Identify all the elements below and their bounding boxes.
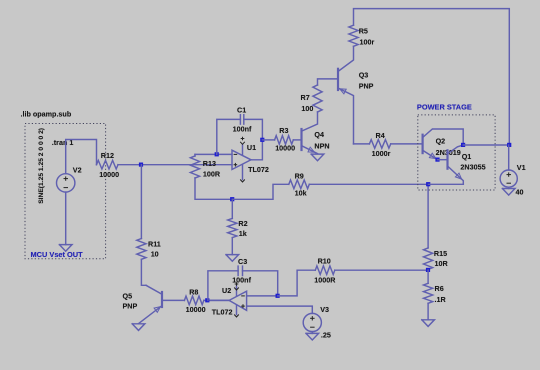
wire R13 bottom to R2 node bbox=[195, 178, 232, 199]
wire rail to V1 bbox=[508, 145, 510, 170]
resistor R5 bbox=[349, 25, 358, 46]
transistor Q2 base bar bbox=[422, 135, 424, 153]
voltage source V3 bbox=[303, 313, 321, 331]
wire R8 to U2 output bbox=[204, 299, 229, 301]
transistor Q4 emitter bbox=[302, 146, 318, 154]
svg-text:10000: 10000 bbox=[99, 170, 119, 179]
svg-text:.lib opamp.sub: .lib opamp.sub bbox=[21, 110, 72, 119]
capacitor C3 bbox=[237, 266, 239, 275]
comment box POWER STAGE bbox=[418, 115, 495, 190]
ground under V1 bbox=[502, 189, 515, 196]
svg-text:R13: R13 bbox=[203, 159, 216, 168]
wire R13 top to U1 minus input bbox=[195, 153, 232, 155]
U1 plus input mark bbox=[234, 164, 238, 166]
U2 plus input mark bbox=[241, 305, 245, 307]
transistor Q4 collector bbox=[302, 112, 318, 131]
node C3/R10/U2- junction bbox=[276, 294, 280, 298]
wire R4 to Q2 base bbox=[391, 143, 423, 145]
svg-text:100R: 100R bbox=[203, 170, 221, 179]
ground under V3 bbox=[306, 333, 319, 340]
wire C1 right to output node bbox=[244, 119, 263, 139]
svg-text:10R: 10R bbox=[435, 259, 449, 268]
U1 minus input mark bbox=[234, 153, 238, 155]
svg-text:V3: V3 bbox=[320, 305, 329, 314]
transistor Q3 collector bbox=[338, 46, 354, 71]
svg-text:V1: V1 bbox=[517, 163, 526, 172]
svg-text:MCU Vset OUT: MCU Vset OUT bbox=[31, 250, 84, 259]
wire V2 top to R12 bbox=[66, 140, 97, 174]
transistor Q4 base bar bbox=[300, 129, 302, 150]
svg-text:R2: R2 bbox=[238, 219, 247, 228]
svg-text:C3: C3 bbox=[238, 257, 247, 266]
voltage source V2 bbox=[56, 174, 74, 192]
wire R12 to node bbox=[118, 164, 141, 166]
transistor Q5 base bar bbox=[161, 292, 163, 307]
op-amp U2 triangle bbox=[229, 291, 247, 310]
wire V1 to ground bbox=[508, 187, 510, 188]
node rail / V1 junction bbox=[507, 143, 511, 147]
transistor Q5 collector bbox=[146, 285, 162, 294]
transistor Q2 collector bbox=[423, 129, 464, 145]
svg-text:1000r: 1000r bbox=[372, 149, 391, 158]
svg-text:1k: 1k bbox=[239, 229, 247, 238]
transistor Q3 base bar bbox=[337, 69, 339, 90]
svg-text:V2: V2 bbox=[73, 165, 82, 174]
svg-text:.1R: .1R bbox=[435, 295, 447, 304]
resistor R2 bbox=[231, 199, 233, 218]
svg-text:POWER STAGE: POWER STAGE bbox=[417, 103, 472, 112]
wire V3 to ground bbox=[311, 332, 313, 334]
transistor Q3 emitter bbox=[338, 88, 354, 144]
svg-text:1000R: 1000R bbox=[314, 275, 336, 284]
U2 V- power pin bbox=[236, 305, 238, 315]
arrow of Q1 emitter bbox=[455, 173, 461, 179]
wire Q5 base to R8 bbox=[162, 299, 184, 301]
svg-text:PNP: PNP bbox=[123, 302, 138, 311]
arrow of Q4 emitter bbox=[308, 147, 315, 152]
svg-text:R11: R11 bbox=[148, 239, 161, 248]
svg-text:Q5: Q5 bbox=[123, 292, 133, 301]
svg-text:Q2: Q2 bbox=[436, 137, 446, 146]
resistor R6 bbox=[427, 270, 429, 283]
resistor R7 bbox=[313, 85, 322, 112]
wire minus node to R10 bbox=[278, 270, 316, 296]
svg-text:2N3055: 2N3055 bbox=[460, 162, 485, 171]
resistor R13 bbox=[190, 156, 199, 178]
wire main net to U1 +input bbox=[141, 164, 232, 166]
svg-text:R15: R15 bbox=[434, 249, 447, 258]
svg-text:SINE(1.25 1.25 2 0 0 0 2): SINE(1.25 1.25 2 0 0 0 2) bbox=[38, 128, 45, 204]
svg-text:R4: R4 bbox=[376, 131, 385, 140]
U1 V- power pin bbox=[242, 165, 244, 180]
wire C3 right to minus node bbox=[243, 271, 278, 296]
node C1/R13/U1- junction bbox=[215, 152, 219, 156]
svg-text:Q3: Q3 bbox=[359, 71, 369, 80]
transistor Q1 emitter bbox=[448, 166, 464, 184]
svg-text:PNP: PNP bbox=[359, 81, 374, 90]
arrow of Q2 emitter bbox=[429, 153, 436, 158]
resistor R12 bbox=[97, 160, 119, 169]
ground under Q4 bbox=[311, 154, 324, 161]
wire U2 output up to C3 bbox=[208, 271, 238, 301]
wire R2 node to R9 bbox=[232, 184, 288, 199]
wire R7 top to Q3 base bbox=[318, 79, 339, 85]
wire R10 to R15/R6 node bbox=[335, 269, 428, 271]
wire node up to C1 bbox=[217, 119, 241, 154]
U1 V+ power pin bbox=[242, 145, 244, 155]
wire output node down to R15 bbox=[427, 184, 429, 248]
svg-text:R8: R8 bbox=[189, 288, 198, 297]
transistor Q5 emitter bbox=[139, 306, 163, 324]
svg-text:TL072: TL072 bbox=[248, 165, 269, 174]
svg-text:R6: R6 bbox=[435, 284, 444, 293]
transistor Q1 base bar bbox=[446, 150, 448, 168]
svg-text:100nf: 100nf bbox=[232, 275, 251, 284]
svg-text:100nf: 100nf bbox=[233, 124, 252, 133]
resistor R8 bbox=[184, 296, 203, 305]
ground under R2 bbox=[226, 255, 239, 262]
transistor Q1 collector bbox=[448, 145, 464, 154]
wire node to R3 bbox=[262, 139, 274, 141]
op-amp U1 triangle bbox=[232, 150, 251, 169]
node junction R12/R11 bbox=[139, 163, 143, 167]
resistor R10 bbox=[315, 266, 335, 275]
svg-text:R12: R12 bbox=[101, 151, 114, 160]
svg-text:Q1: Q1 bbox=[462, 152, 472, 161]
node U2 output junction bbox=[205, 298, 209, 302]
svg-text:.25: .25 bbox=[321, 331, 331, 340]
node output junction bbox=[426, 182, 430, 186]
svg-text:10: 10 bbox=[151, 250, 159, 259]
wire R3 to Q4 base bbox=[293, 139, 301, 141]
wire V2 bottom to ground bbox=[65, 192, 67, 245]
wire Q3 emitter to R4 bbox=[354, 143, 370, 145]
svg-text:10000: 10000 bbox=[275, 144, 295, 153]
svg-text:100: 100 bbox=[301, 104, 313, 113]
transistor Q2 emitter bbox=[423, 150, 438, 159]
node U1 output junction bbox=[260, 138, 264, 142]
arrow of Q5 emitter bbox=[154, 307, 160, 313]
node collectors junction bbox=[461, 143, 465, 147]
wire R9 to output node bbox=[309, 183, 428, 185]
node R2 top junction bbox=[230, 197, 234, 201]
resistor R11 bbox=[137, 239, 146, 260]
svg-text:R10: R10 bbox=[318, 257, 331, 266]
voltage source V1 bbox=[500, 170, 517, 187]
svg-text:10k: 10k bbox=[295, 189, 307, 198]
wire R11 to Q5 collector bbox=[141, 259, 146, 285]
arrow of Q3 emitter bbox=[340, 89, 347, 94]
svg-text:U2: U2 bbox=[222, 286, 231, 295]
svg-text:U1: U1 bbox=[247, 143, 256, 152]
node Q2 emitter / Q1 base junction bbox=[435, 158, 439, 162]
svg-text:10000: 10000 bbox=[186, 305, 206, 314]
capacitor C1 bbox=[239, 115, 241, 124]
svg-text:40: 40 bbox=[516, 188, 524, 197]
resistor R9 bbox=[289, 180, 310, 189]
wire collectors node to rail bbox=[463, 144, 509, 146]
U2 minus input mark bbox=[241, 295, 245, 297]
svg-text:100r: 100r bbox=[360, 38, 375, 47]
ground under V2 bbox=[59, 245, 72, 252]
wire R6 to ground bbox=[427, 303, 429, 320]
svg-text:NPN: NPN bbox=[314, 141, 329, 150]
resistor R4 bbox=[369, 140, 390, 149]
wire node down to R11 bbox=[140, 165, 142, 239]
resistor R15 bbox=[424, 248, 433, 270]
resistor R3 bbox=[275, 136, 294, 145]
comment box MCU Vset OUT bbox=[25, 124, 106, 259]
ground under R6 bbox=[422, 320, 435, 327]
svg-text:R7: R7 bbox=[301, 93, 310, 102]
svg-text:Q4: Q4 bbox=[314, 130, 324, 139]
wire Q1 emitter to output node bbox=[428, 183, 463, 185]
wire U1 output bbox=[251, 140, 262, 160]
ground under Q5 bbox=[132, 324, 145, 331]
wire U2 plus input to V3 bbox=[247, 306, 313, 313]
svg-text:R3: R3 bbox=[279, 126, 288, 135]
svg-text:R9: R9 bbox=[295, 171, 304, 180]
U2 V+ power pin bbox=[236, 286, 238, 296]
wire top rail bbox=[354, 9, 510, 145]
wire minus node to U2 minus input bbox=[247, 295, 278, 297]
wire Q2 emitter to Q1 base bbox=[438, 159, 448, 161]
svg-text:C1: C1 bbox=[237, 106, 246, 115]
svg-text:R5: R5 bbox=[359, 26, 368, 35]
svg-text:TL072: TL072 bbox=[212, 308, 233, 317]
node R15/R6/R10 junction bbox=[426, 268, 430, 272]
wire U2 output to node bbox=[207, 299, 229, 301]
